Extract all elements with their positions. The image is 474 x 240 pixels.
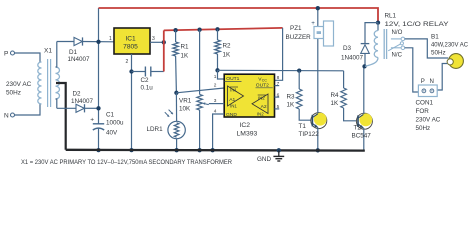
svg-text:+: + (90, 117, 94, 124)
ground symbol (273, 150, 284, 161)
wire secondary top riser (56, 42, 57, 68)
IC2 pin name OUT2 (256, 83, 273, 89)
junction dot IC2 pin4 ground (210, 148, 214, 152)
label 230V AC 50Hz mains (6, 81, 32, 97)
label C1 (106, 112, 124, 137)
junction dot R1/LDR node (174, 91, 178, 95)
resistor R1 1K (173, 30, 179, 93)
label N/O (392, 29, 403, 36)
wire secondary bottom riser (56, 99, 57, 108)
svg-text:GND: GND (257, 156, 271, 163)
junction dot relay top (376, 20, 380, 24)
transistor T1 TIP122 (311, 113, 327, 129)
svg-text:VR1: VR1 (179, 98, 192, 105)
label GND (257, 156, 271, 163)
wire OUT1 node into pin1 (218, 70, 225, 79)
IC2 pin name OUT1 (224, 76, 241, 82)
svg-text:1N4007: 1N4007 (68, 56, 91, 63)
svg-text:B1: B1 (431, 34, 439, 41)
op IC1 7805 regulator box (114, 28, 150, 54)
svg-text:IC1: IC1 (125, 36, 136, 43)
wire T1 collector to buzzer (317, 39, 319, 114)
junction dot LDR1 ground (174, 148, 178, 152)
svg-text:N: N (4, 113, 9, 120)
diode D1 1N4007 (57, 37, 114, 45)
wire IC2 pin7 stub (275, 85, 280, 87)
svg-text:1: 1 (214, 74, 217, 80)
svg-text:T2: T2 (354, 125, 362, 132)
resistor R3 1K (296, 71, 311, 121)
op-amp IC2 LM393 box (224, 74, 274, 117)
svg-text:0.1u: 0.1u (141, 85, 154, 92)
wire T2 emitter to ground (363, 128, 365, 151)
svg-text:R1: R1 (181, 44, 190, 51)
junction dot T1 emitter ground (316, 148, 320, 152)
label T2 (352, 125, 372, 140)
svg-text:10K: 10K (179, 106, 191, 113)
junction dot IC1 pin3 (162, 40, 166, 44)
svg-text:CON1: CON1 (416, 100, 434, 107)
IC2 comparator A1 triangle (228, 86, 244, 109)
junction dot IC1 pin2 ground (129, 148, 133, 152)
junction dot VR1 top (197, 28, 201, 32)
svg-text:R3: R3 (287, 94, 296, 101)
wire IC1 pin2 ground drop (131, 54, 133, 150)
wire N to transformer primary (15, 104, 41, 115)
wire node to LDR1 (175, 93, 177, 122)
wire transformer centre tap (black) (56, 83, 66, 150)
capacitor C2 0.1u (132, 67, 164, 77)
wire N/C to CON1 P (405, 48, 419, 92)
relay N/O contact (391, 37, 405, 41)
svg-text:IN2: IN2 (257, 111, 264, 116)
svg-text:T1: T1 (299, 123, 307, 130)
pin 4 label IC2 (214, 109, 217, 115)
label transformer note (21, 159, 232, 166)
transformer X1 core (48, 59, 51, 107)
label B1 (431, 34, 468, 57)
junction dot OUT1 node (215, 68, 219, 72)
svg-text:RL1: RL1 (385, 13, 397, 20)
svg-text:IN2: IN2 (258, 95, 265, 100)
pin 3 label IC2 (214, 98, 217, 104)
svg-text:2: 2 (126, 59, 129, 65)
label R3 (287, 94, 296, 109)
wire 12V node vertical (D1/D2 junction down to C1) (98, 8, 100, 150)
svg-text:2: 2 (214, 83, 217, 89)
svg-text:N/O: N/O (392, 29, 403, 36)
wire P to transformer primary (15, 53, 41, 62)
svg-text:230V AC: 230V AC (416, 117, 441, 124)
label R2 (223, 43, 232, 59)
svg-text:A1: A1 (229, 97, 235, 103)
svg-text:1N4007: 1N4007 (71, 98, 94, 105)
label D1 (68, 49, 91, 63)
svg-text:BUZZER: BUZZER (286, 34, 312, 41)
junction dot C1 ground (96, 148, 100, 152)
junction dot D2 output (96, 106, 100, 110)
junction dot R1 top (173, 28, 177, 32)
wire IC2 pin3 from VR1 wiper (209, 103, 224, 105)
svg-text:LDR1: LDR1 (147, 126, 164, 133)
wire IC1 pin3 to node (150, 41, 164, 43)
svg-text:X1 = 230V AC PRIMARY TO 12V–0–: X1 = 230V AC PRIMARY TO 12V–0–12V,750mA … (21, 159, 232, 166)
node N (neutral terminal) (4, 113, 15, 120)
svg-text:1K: 1K (287, 102, 296, 109)
transformer X1 label (44, 47, 52, 54)
svg-text:3: 3 (152, 36, 155, 42)
pin 2 label IC1 (126, 59, 129, 65)
IC2 pin name GND (226, 112, 237, 118)
svg-text:C2: C2 (141, 77, 150, 84)
pin 7 label IC2 (277, 81, 280, 87)
svg-text:BC547: BC547 (352, 133, 372, 140)
relay RL1 coil (365, 23, 378, 67)
wire IC2 pin6 stub (275, 96, 280, 98)
LDR1 light arrows (165, 110, 173, 117)
pin 2 label IC2 (214, 83, 217, 89)
node P (phase terminal) (4, 51, 15, 58)
pin 5 label IC2 (277, 104, 280, 110)
wire relay top to D3 (365, 23, 378, 44)
wire 5V red riser from IC1 pin3 (163, 30, 165, 71)
junction dot C2 left (129, 69, 133, 73)
transformer X1 primary winding (38, 62, 42, 104)
svg-text:A2: A2 (261, 104, 267, 110)
svg-text:P: P (421, 78, 425, 85)
svg-text:FOR: FOR (416, 108, 430, 115)
relay pole arm (388, 42, 403, 51)
relay N/C contact (391, 46, 405, 50)
svg-text:IC2: IC2 (240, 122, 251, 129)
svg-text:N: N (430, 78, 434, 85)
svg-text:1K: 1K (223, 52, 232, 59)
svg-text:50Hz: 50Hz (6, 90, 21, 97)
wire T2 collector to relay node (363, 66, 365, 114)
label P pin CON1 (421, 78, 425, 85)
pin 3 label IC1 (152, 36, 155, 42)
resistor R4 1K (341, 71, 357, 121)
label R1 (181, 44, 190, 60)
VR1 wiper arrow (202, 102, 209, 104)
svg-text:X1: X1 (44, 47, 52, 54)
svg-text:N/C: N/C (392, 52, 403, 59)
svg-text:C1: C1 (106, 112, 115, 119)
svg-text:GND: GND (226, 112, 237, 118)
resistor R2 1K (215, 29, 221, 70)
LDR1 photoresistor (168, 121, 185, 150)
svg-text:7805: 7805 (123, 44, 138, 51)
wire R1-LDR node to IC2 pin2 (176, 88, 224, 93)
svg-text:PZ1: PZ1 (290, 25, 302, 32)
svg-text:LM393: LM393 (237, 131, 258, 138)
transistor T2 BC547 (356, 113, 372, 129)
wire IC2 pin4 ground (213, 114, 225, 150)
label LDR1 (147, 126, 164, 133)
svg-text:D2: D2 (73, 91, 82, 98)
pin 1 label IC2 (214, 74, 217, 80)
bulb B1 (447, 54, 463, 69)
svg-text:+: + (311, 20, 315, 27)
junction dot D1 output (96, 40, 100, 44)
label D3 (341, 45, 364, 62)
junction dot R3 top (297, 68, 301, 72)
svg-text:R2: R2 (223, 43, 232, 50)
transformer X1 secondary winding (56, 67, 60, 99)
svg-text:12V, 1C/O RELAY: 12V, 1C/O RELAY (385, 21, 450, 28)
wire T1 emitter to ground (317, 127, 319, 150)
svg-text:CC: CC (262, 78, 268, 82)
pin 1 label IC1 (109, 36, 112, 42)
junction dot R2 top (215, 27, 219, 31)
label VR1 (179, 98, 192, 113)
IC2 comparator A2 triangle (252, 94, 268, 116)
label T1 (299, 123, 320, 138)
junction dot buzzer top (316, 6, 320, 10)
junction dot GND symbol node (277, 148, 281, 152)
wire 5V red rail (164, 28, 283, 31)
wire OUT1 node to R3/R4 (218, 69, 344, 72)
svg-text:D3: D3 (343, 45, 352, 52)
svg-text:1N4007: 1N4007 (341, 55, 364, 62)
wire bulb to CON1 N (437, 64, 447, 91)
svg-text:1: 1 (109, 36, 112, 42)
svg-text:P: P (4, 51, 8, 58)
wire IC2 pin5 stub (275, 108, 280, 110)
svg-text:50Hz: 50Hz (431, 50, 446, 57)
label C2 (141, 77, 154, 92)
IC2 pin name Vcc (258, 77, 267, 83)
wire 12V red rail (99, 8, 379, 23)
diode D3 1N4007 (361, 44, 370, 67)
label CON1 (416, 100, 441, 133)
svg-text:230V AC: 230V AC (6, 81, 32, 88)
svg-text:50Hz: 50Hz (416, 125, 431, 132)
svg-text:IN1: IN1 (230, 104, 237, 109)
svg-text:1000u: 1000u (106, 120, 124, 127)
wire ground rail (black) (66, 149, 365, 152)
svg-text:40V: 40V (106, 130, 118, 137)
label D2 (71, 91, 94, 105)
label RL1 (385, 13, 450, 29)
label R4 (331, 92, 340, 107)
wire N/O to bulb (405, 39, 449, 58)
label N/C (392, 52, 403, 59)
svg-text:TIP122: TIP122 (299, 131, 320, 138)
svg-text:1K: 1K (181, 53, 190, 60)
wire Vcc drop to IC2 pin8 (275, 28, 283, 80)
label IC2 (237, 122, 258, 138)
svg-text:D1: D1 (69, 49, 78, 56)
svg-text:1K: 1K (331, 100, 340, 107)
junction dot VR1 ground (197, 148, 201, 152)
buzzer PZ1 (311, 8, 333, 46)
svg-text:R4: R4 (331, 92, 340, 99)
pin 8 label IC2 (277, 75, 280, 81)
connector CON1 (418, 85, 437, 97)
svg-text:IN1: IN1 (230, 87, 237, 92)
potentiometer VR1 10K (197, 30, 203, 151)
label N pin CON1 (430, 78, 434, 85)
capacitor C1 1000u 40V (90, 117, 104, 131)
svg-text:8: 8 (277, 75, 280, 81)
diode D2 1N4007 (57, 104, 99, 112)
junction dot relay bottom node (362, 64, 366, 68)
label PZ1 BUZZER (286, 25, 312, 41)
relay RL1 core (384, 29, 386, 59)
pin 6 label IC2 (277, 92, 280, 98)
svg-text:40W,230V AC: 40W,230V AC (431, 42, 468, 49)
